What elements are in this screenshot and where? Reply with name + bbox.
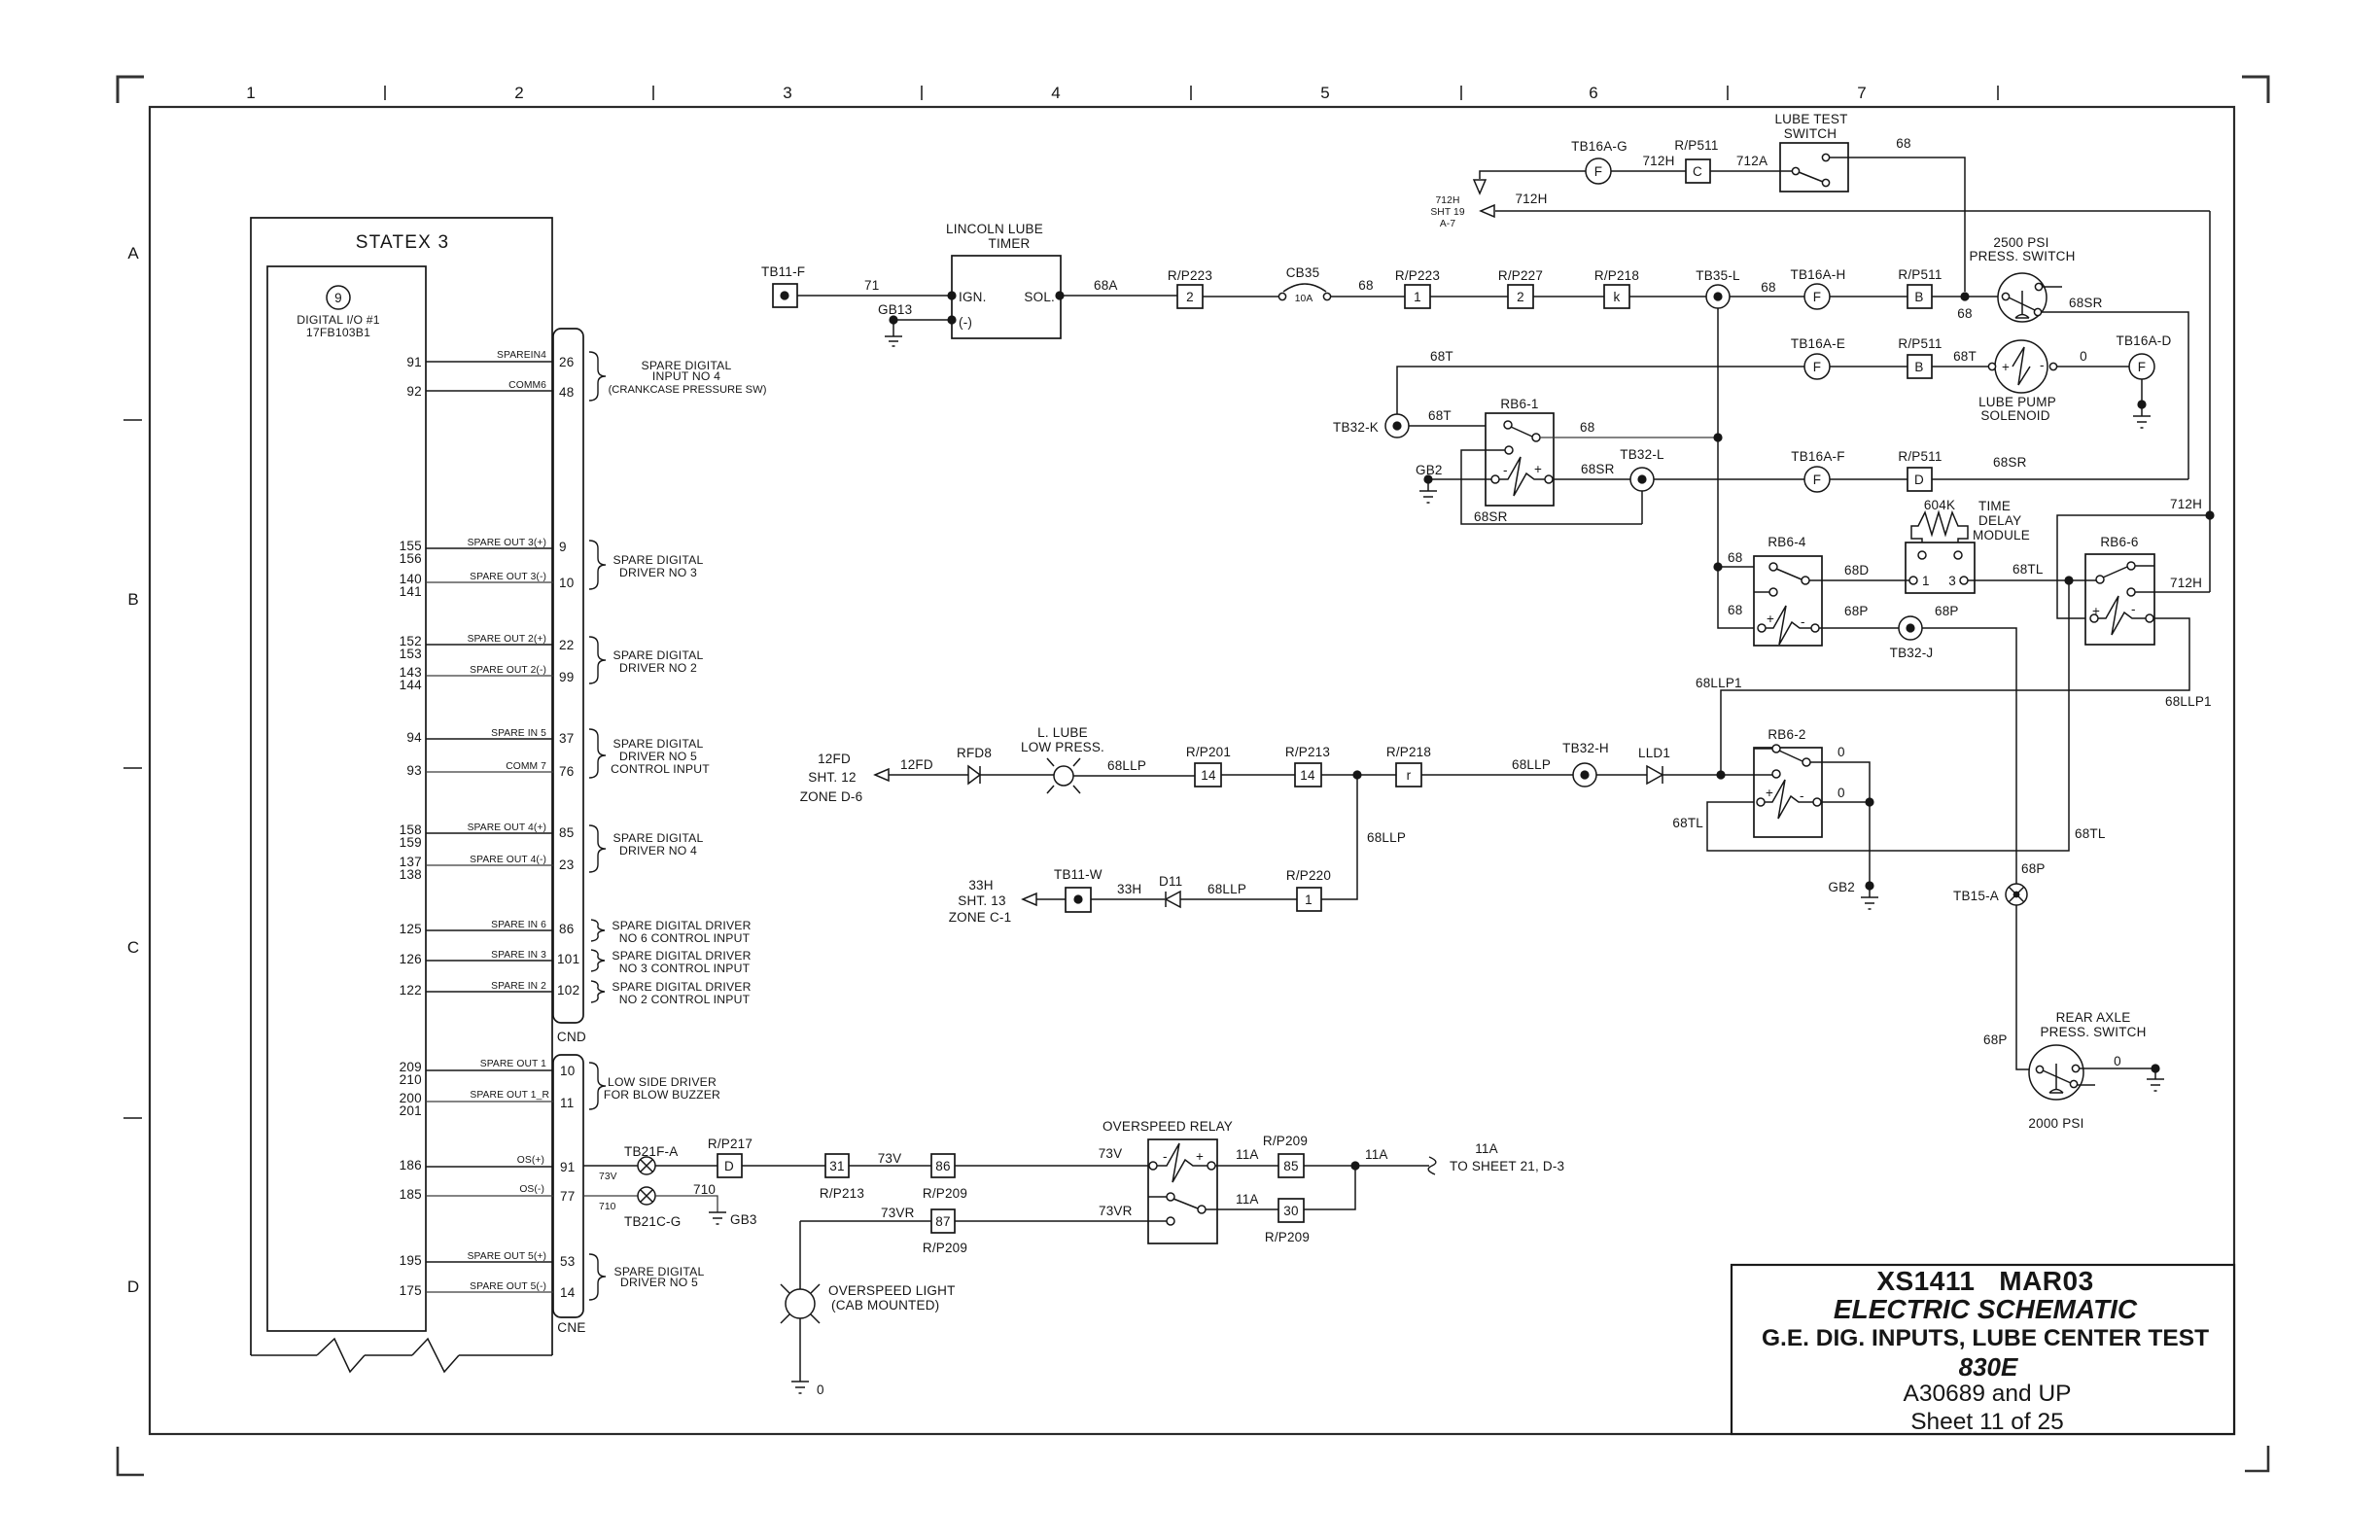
svg-text:GB13: GB13	[878, 302, 912, 317]
svg-text:SPARE IN 2: SPARE IN 2	[491, 981, 546, 992]
svg-text:SPARE IN 3: SPARE IN 3	[491, 950, 546, 961]
corner mark bottom-left	[118, 1447, 144, 1475]
svg-text:153: 153	[400, 647, 422, 661]
svg-text:10: 10	[559, 576, 575, 590]
wire 30 up to 11A junction	[1304, 1166, 1355, 1209]
wire OS(-) pin 185 to pin 77	[426, 1195, 553, 1197]
connector strip CND	[553, 329, 583, 1023]
svg-text:85: 85	[559, 825, 575, 840]
svg-text:33H: 33H	[968, 878, 993, 892]
svg-text:D11: D11	[1159, 874, 1182, 889]
svg-text:SPARE OUT 4(+): SPARE OUT 4(+)	[468, 822, 546, 833]
svg-text:2000 PSI: 2000 PSI	[2028, 1116, 2083, 1131]
break symbol 1	[317, 1339, 365, 1372]
svg-text:LUBE TEST: LUBE TEST	[1774, 112, 1847, 126]
svg-text:195: 195	[400, 1253, 422, 1268]
corner mark top-left	[118, 77, 144, 103]
wire 712A R/P511 C to lube test switch	[1710, 170, 1792, 172]
brace low side driver	[589, 1063, 606, 1109]
wire RB6-2 coil to GB2 junction 0	[1821, 801, 1870, 803]
drawing frame border	[150, 107, 2234, 1434]
svg-text:87: 87	[935, 1214, 950, 1229]
svg-text:TB16A-D: TB16A-D	[2117, 333, 2172, 348]
svg-text:SPARE DIGITAL DRIVER: SPARE DIGITAL DRIVER	[612, 980, 751, 994]
svg-text:R/P209: R/P209	[923, 1241, 967, 1255]
wire R/P201 to R/P213	[1221, 774, 1295, 776]
svg-text:Sheet 11 of 25: Sheet 11 of 25	[1910, 1409, 2064, 1435]
svg-text:SPARE IN 6: SPARE IN 6	[491, 920, 546, 930]
ground at TB16A-D	[2141, 379, 2143, 404]
svg-text:SPARE OUT 1_R: SPARE OUT 1_R	[470, 1090, 549, 1101]
svg-text:B: B	[1914, 360, 1923, 374]
wire 68LLP R/P218 to TB32-H	[1421, 774, 1573, 776]
svg-text:94: 94	[406, 730, 422, 745]
svg-text:A30689 and UP: A30689 and UP	[1904, 1381, 2072, 1407]
wire 73V 86 to overspeed relay	[955, 1165, 1149, 1167]
svg-text:SPARE OUT 1: SPARE OUT 1	[480, 1059, 546, 1069]
svg-text:GB2: GB2	[1828, 880, 1855, 894]
brace spare digital driver no 6 control input	[591, 920, 605, 941]
terminal TB11-F	[773, 284, 797, 307]
svg-text:OS(+): OS(+)	[517, 1155, 544, 1166]
svg-text:+: +	[2002, 360, 2010, 374]
wire OS(+) pin 186 to pin 91	[426, 1166, 553, 1168]
svg-text:R/P511: R/P511	[1898, 336, 1942, 351]
wire 68P RB6-4 coil to TB32-J	[1819, 627, 1899, 629]
row ticks	[123, 420, 142, 1118]
wire 712H right-edge riser	[2209, 211, 2211, 592]
svg-text:LOW SIDE DRIVER: LOW SIDE DRIVER	[608, 1075, 717, 1089]
svg-text:SPARE OUT 3(-): SPARE OUT 3(-)	[470, 572, 546, 582]
corner mark bottom-right	[2245, 1446, 2268, 1471]
off-sheet left arrow 33H	[1023, 893, 1036, 905]
svg-text:ELECTRIC SCHEMATIC: ELECTRIC SCHEMATIC	[1834, 1294, 2138, 1324]
svg-text:68SR: 68SR	[1993, 455, 2027, 470]
svg-text:138: 138	[400, 867, 422, 882]
svg-text:-: -	[2040, 358, 2045, 372]
svg-text:NO 3 CONTROL INPUT: NO 3 CONTROL INPUT	[619, 962, 751, 975]
svg-text:23: 23	[559, 857, 575, 872]
title block box	[1732, 1265, 2234, 1434]
wire SPARE OUT 1 pins 209/210 to pin 10	[426, 1069, 553, 1071]
svg-text:11A: 11A	[1236, 1192, 1259, 1207]
svg-text:712H: 712H	[1435, 195, 1459, 206]
wire 68TL riser to bottom run	[1707, 580, 2069, 851]
svg-text:710: 710	[693, 1182, 716, 1197]
svg-text:(-): (-)	[959, 315, 972, 330]
wire 33H TB11-W to D11	[1091, 898, 1165, 900]
svg-text:0: 0	[1837, 786, 1845, 800]
time delay pin 1	[1909, 577, 1917, 584]
svg-text:68LLP: 68LLP	[1512, 757, 1551, 772]
svg-text:68: 68	[1358, 278, 1373, 293]
svg-text:(CAB MOUNTED): (CAB MOUNTED)	[831, 1298, 939, 1312]
svg-text:76: 76	[559, 764, 575, 779]
svg-text:68SR: 68SR	[1474, 509, 1508, 524]
pressure switch 2000 PSI rear axle	[2029, 1045, 2083, 1100]
svg-text:TB16A-F: TB16A-F	[1791, 449, 1844, 464]
wire 68P TB32-J to riser	[1922, 628, 2031, 1069]
timer pin (-)	[947, 315, 956, 324]
svg-text:SPARE DIGITAL: SPARE DIGITAL	[613, 737, 704, 751]
svg-text:712A: 712A	[1736, 154, 1767, 168]
svg-text:NO 2 CONTROL INPUT: NO 2 CONTROL INPUT	[619, 993, 751, 1006]
wire 73VR light branch to 87	[800, 1221, 931, 1289]
brace spare digital driver no 4	[589, 825, 606, 872]
svg-text:SHT. 13: SHT. 13	[958, 893, 1005, 908]
svg-text:ZONE C-1: ZONE C-1	[949, 910, 1012, 925]
svg-text:TB11-W: TB11-W	[1054, 867, 1102, 882]
overspeed relay coil	[1149, 1162, 1157, 1170]
wire SPARE OUT 5(+) pin 195 to pin 53	[426, 1261, 553, 1263]
svg-text:(CRANKCASE PRESSURE SW): (CRANKCASE PRESSURE SW)	[609, 384, 767, 396]
wire RFD8 to low press lamp	[980, 774, 1054, 776]
RB6-2 coil	[1757, 798, 1765, 806]
svg-text:LOW PRESS.: LOW PRESS.	[1021, 740, 1104, 754]
svg-text:DIGITAL I/O #1: DIGITAL I/O #1	[297, 313, 379, 327]
svg-text:XS1411 MAR03: XS1411 MAR03	[1876, 1266, 2093, 1296]
circle 9 module id	[327, 286, 350, 309]
wire 68SR R/P511 D to riser	[1932, 478, 2188, 480]
svg-text:DRIVER NO 3: DRIVER NO 3	[619, 566, 697, 579]
svg-text:2: 2	[514, 84, 523, 102]
wire relay contact out 11A to R/P209 30	[1206, 1208, 1278, 1210]
off-sheet left arrow 12FD	[875, 769, 889, 781]
svg-text:SPARE OUT 2(+): SPARE OUT 2(+)	[468, 634, 546, 645]
svg-text:TB32-J: TB32-J	[1890, 646, 1934, 660]
ground 0 at overspeed light	[791, 1382, 809, 1393]
svg-text:68: 68	[1728, 603, 1742, 617]
terminal TB32-J	[1899, 616, 1922, 640]
wire 68SR RB6-1 coil to TB32-L	[1553, 478, 1630, 480]
svg-text:RFD8: RFD8	[957, 746, 992, 760]
wire TB32-H to LLD1	[1596, 774, 1647, 776]
brace spare digital driver no 3 control input	[591, 950, 605, 971]
wire R/P511 to pressure switch with junction	[1932, 296, 1998, 297]
svg-text:D: D	[1914, 472, 1924, 487]
svg-text:PRESS. SWITCH: PRESS. SWITCH	[1969, 249, 2075, 263]
svg-text:22: 22	[559, 638, 575, 652]
svg-text:68D: 68D	[1844, 563, 1869, 577]
svg-text:2500 PSI: 2500 PSI	[1993, 235, 2048, 250]
svg-text:0: 0	[2080, 349, 2087, 364]
svg-text:710: 710	[599, 1202, 616, 1212]
svg-text:99: 99	[559, 670, 575, 684]
svg-text:INPUT NO 4: INPUT NO 4	[652, 369, 720, 383]
svg-text:12FD: 12FD	[818, 752, 851, 766]
wire 712H RB6-6 NC to riser	[2135, 591, 2210, 593]
svg-text:TB21C-G: TB21C-G	[624, 1214, 681, 1229]
svg-text:92: 92	[406, 384, 422, 399]
svg-text:SPARE IN 5: SPARE IN 5	[491, 728, 546, 739]
svg-text:68SR: 68SR	[1581, 462, 1615, 476]
svg-text:B: B	[127, 590, 138, 609]
wire 68T TB32-K to RB6-1	[1409, 425, 1504, 427]
svg-text:NO 6 CONTROL INPUT: NO 6 CONTROL INPUT	[619, 931, 751, 945]
ground GB13	[889, 315, 897, 324]
svg-text:73V: 73V	[878, 1151, 902, 1166]
time delay module box	[1906, 542, 1975, 593]
wire 68 into RB6-4 contact	[1718, 566, 1769, 568]
wire TB16A-H to R/P511	[1830, 296, 1907, 297]
svg-text:F: F	[1813, 472, 1821, 487]
svg-text:9: 9	[334, 291, 342, 305]
svg-text:77: 77	[560, 1189, 576, 1204]
svg-text:85: 85	[1283, 1159, 1298, 1173]
svg-text:-: -	[1801, 614, 1805, 629]
svg-text:1: 1	[1922, 574, 1930, 588]
wire 710 TB21C-G to GB3	[655, 1196, 717, 1212]
svg-text:68: 68	[1728, 550, 1742, 565]
wire 11A 85 to off-sheet with junction	[1304, 1165, 1429, 1167]
wire TB16A-G to off-sheet arrow	[1480, 171, 1586, 179]
svg-text:68LLP: 68LLP	[1107, 758, 1146, 773]
STATEX 3 outer box bottom edge with break symbols	[251, 1354, 552, 1356]
svg-text:COMM 7: COMM 7	[506, 761, 546, 772]
svg-text:TIMER: TIMER	[989, 236, 1031, 251]
svg-text:14: 14	[1201, 768, 1216, 783]
break symbol to sheet 21	[1428, 1157, 1436, 1174]
wire 73V pin 91 to TB21F-A	[583, 1165, 638, 1167]
svg-text:10A: 10A	[1295, 294, 1313, 304]
svg-text:68: 68	[1896, 136, 1910, 151]
break symbol 2	[412, 1339, 459, 1372]
svg-text:68LLP1: 68LLP1	[1696, 676, 1742, 690]
svg-text:CB35: CB35	[1286, 265, 1320, 280]
svg-text:R/P227: R/P227	[1498, 268, 1543, 283]
RB6-6 coil	[2090, 614, 2098, 622]
svg-text:SPARE OUT 4(-): SPARE OUT 4(-)	[470, 855, 546, 865]
svg-text:-: -	[1800, 788, 1804, 803]
svg-text:A: A	[127, 244, 139, 262]
brace spare digital driver no 5 control input	[589, 729, 606, 778]
svg-text:12FD: 12FD	[900, 757, 933, 772]
svg-text:SOLENOID: SOLENOID	[1980, 408, 2049, 423]
wire COMM6 pin 92 to pin 48	[426, 390, 553, 392]
svg-text:TO SHEET 21, D-3: TO SHEET 21, D-3	[1450, 1159, 1564, 1173]
wire 12FD arrow to RFD8	[889, 774, 968, 776]
wire 712H TB16A-G to R/P511 C	[1611, 170, 1686, 172]
svg-text:R/P511: R/P511	[1898, 449, 1942, 464]
svg-text:68T: 68T	[1430, 349, 1453, 364]
RB6-1 coil	[1491, 475, 1499, 483]
svg-text:TB32-L: TB32-L	[1620, 447, 1664, 462]
wire 68A timer SOL to R/P223	[1060, 295, 1177, 297]
lamp terminal TB21C-G	[638, 1187, 655, 1205]
brace spare digital driver no 5	[589, 1254, 606, 1300]
svg-text:COMM6: COMM6	[508, 380, 546, 391]
svg-text:SPARE OUT 2(-): SPARE OUT 2(-)	[470, 665, 546, 676]
svg-text:LLD1: LLD1	[1638, 746, 1670, 760]
svg-text:26: 26	[559, 355, 575, 369]
wire 68T R/P511 to lube pump solenoid	[1932, 366, 1988, 367]
svg-text:68TL: 68TL	[2012, 562, 2044, 577]
svg-text:TIME: TIME	[1978, 499, 2011, 513]
wire 68LLP lamp to R/P201	[1073, 775, 1195, 777]
svg-text:DRIVER NO 4: DRIVER NO 4	[619, 844, 697, 857]
corner mark top-right	[2242, 77, 2268, 103]
svg-text:1: 1	[1414, 290, 1421, 304]
wire 73VR 87 to relay contact	[955, 1220, 1167, 1222]
svg-text:TB32-H: TB32-H	[1562, 741, 1609, 755]
svg-text:17FB103B1: 17FB103B1	[306, 326, 370, 339]
svg-text:SPARE OUT 3(+): SPARE OUT 3(+)	[468, 538, 546, 548]
wire TB21F-A to R/P217 D	[655, 1165, 717, 1167]
wire 68 lube test switch to junction	[1830, 157, 1965, 292]
svg-text:6: 6	[1589, 84, 1597, 102]
svg-text:CONTROL INPUT: CONTROL INPUT	[611, 762, 710, 776]
svg-text:R/P218: R/P218	[1594, 268, 1639, 283]
wire arrow to TB11-W	[1036, 898, 1066, 900]
svg-text:53: 53	[560, 1254, 576, 1269]
wire 0 solenoid to TB16A-D	[2057, 366, 2129, 367]
Lincoln lube timer box	[952, 256, 1061, 338]
svg-text:R/P223: R/P223	[1168, 268, 1212, 283]
svg-text:LINCOLN LUBE: LINCOLN LUBE	[946, 222, 1043, 236]
svg-text:LUBE PUMP: LUBE PUMP	[1978, 395, 2056, 409]
wire SPARE OUT 1_R pins 200/201 to pin 11	[426, 1101, 553, 1102]
svg-text:68LLP: 68LLP	[1207, 882, 1246, 896]
column ticks	[385, 86, 1998, 100]
svg-text:68T: 68T	[1428, 408, 1452, 423]
wire SPARE OUT 2(-) pins 143/144 to pin 99	[426, 675, 553, 677]
svg-text:R/P218: R/P218	[1386, 745, 1431, 759]
overspeed light lamp	[786, 1289, 815, 1318]
wire 710 pin 77 to TB21C-G	[583, 1195, 638, 1197]
wire TB16A-F to R/P511 D	[1830, 478, 1907, 480]
svg-text:TB15-A: TB15-A	[1953, 889, 1999, 903]
wire 68SR pressure switch output	[2042, 312, 2188, 479]
wire 73V R/P213 to R/P209 86	[849, 1165, 931, 1167]
svg-text:R/P511: R/P511	[1674, 138, 1718, 153]
svg-text:68: 68	[1761, 280, 1775, 295]
svg-text:R/P209: R/P209	[923, 1186, 967, 1201]
svg-text:9: 9	[559, 540, 567, 554]
svg-text:3: 3	[783, 84, 791, 102]
svg-text:SPARE DIGITAL: SPARE DIGITAL	[613, 831, 704, 845]
svg-text:11A: 11A	[1475, 1141, 1498, 1156]
svg-text:DELAY: DELAY	[1978, 513, 2021, 528]
ground at rear axle switch	[2151, 1064, 2159, 1072]
svg-text:712H: 712H	[2170, 576, 2202, 590]
connector strip CNE	[553, 1055, 583, 1317]
svg-text:GB3: GB3	[730, 1212, 757, 1227]
svg-text:DRIVER NO 5: DRIVER NO 5	[619, 750, 697, 763]
svg-text:SPAREIN4: SPAREIN4	[497, 350, 546, 361]
svg-text:+: +	[1767, 612, 1774, 626]
svg-text:MODULE: MODULE	[1973, 528, 2030, 542]
svg-text:+: +	[2092, 604, 2100, 618]
svg-text:+: +	[1196, 1149, 1204, 1164]
wire R/P218 to TB35-L	[1629, 296, 1706, 297]
svg-text:SWITCH: SWITCH	[1784, 126, 1837, 141]
off-sheet left arrow 712H	[1481, 205, 1494, 217]
svg-text:-: -	[1163, 1149, 1168, 1164]
RB6-4 coil	[1758, 624, 1766, 632]
svg-text:37: 37	[559, 731, 575, 746]
svg-text:SPARE OUT 5(+): SPARE OUT 5(+)	[468, 1251, 546, 1262]
svg-text:+: +	[1766, 786, 1773, 800]
svg-text:F: F	[1594, 164, 1602, 179]
svg-text:B: B	[1914, 290, 1923, 304]
wire 71 TB11-F to timer IGN	[797, 295, 952, 297]
svg-text:R/P217: R/P217	[708, 1137, 752, 1151]
connector R/P209 pin 87	[931, 1209, 955, 1233]
wire 68LLP1 RB6-6 coil to RB6-2	[1721, 618, 2189, 775]
svg-text:IGN.: IGN.	[959, 290, 987, 304]
svg-text:RB6-4: RB6-4	[1767, 535, 1806, 549]
brace spare digital driver no 2	[589, 637, 606, 683]
svg-text:0: 0	[2114, 1054, 2121, 1068]
svg-text:144: 144	[400, 678, 423, 692]
overspeed relay contacts	[1167, 1193, 1174, 1201]
svg-text:11A: 11A	[1365, 1147, 1388, 1162]
wire SPAREIN4 pin 91 to pin 26	[426, 361, 553, 363]
wire 68TL time delay pin 3 to RB6-6	[1968, 579, 2096, 581]
svg-text:201: 201	[400, 1103, 422, 1118]
wire SPARE IN 3 pin 126 to pin 101	[426, 960, 553, 962]
svg-text:712H: 712H	[2170, 497, 2202, 511]
svg-text:TB21F-A: TB21F-A	[624, 1144, 678, 1159]
brace spare digital driver no 2 control input	[591, 981, 605, 1002]
svg-text:156: 156	[400, 551, 422, 566]
wire 712H return from right edge	[1495, 210, 2210, 212]
svg-text:830E: 830E	[1959, 1352, 2018, 1382]
svg-text:1: 1	[1305, 892, 1312, 907]
wire R/P223 to CB35	[1203, 296, 1278, 297]
svg-text:11A: 11A	[1236, 1147, 1259, 1162]
svg-text:73V: 73V	[1099, 1146, 1123, 1161]
svg-text:2: 2	[1517, 290, 1524, 304]
svg-text:k: k	[1614, 290, 1621, 304]
svg-text:91: 91	[560, 1160, 576, 1174]
wire 68 TB35-L to TB16A-H	[1730, 296, 1804, 297]
wire TB35-L riser to RB6-4	[1718, 308, 1760, 628]
wire SPARE OUT 4(+) pins 158/159 to pin 85	[426, 832, 553, 834]
wire SPARE IN 6 pin 125 to pin 86	[426, 929, 553, 931]
svg-text:R/P220: R/P220	[1286, 868, 1331, 883]
wire GB2 to RB6-1 coil	[1428, 478, 1491, 480]
svg-text:71: 71	[864, 278, 879, 293]
wire SPARE OUT 3(+) pins 155/156 to pin 9	[426, 547, 553, 549]
svg-text:TB16A-H: TB16A-H	[1791, 267, 1846, 282]
svg-text:68SR: 68SR	[2069, 296, 2103, 310]
wire GB13 to timer (-)	[893, 319, 952, 321]
svg-text:68P: 68P	[1935, 604, 1959, 618]
svg-text:159: 159	[400, 835, 422, 850]
svg-text:2: 2	[1186, 290, 1194, 304]
svg-text:10: 10	[560, 1064, 576, 1078]
svg-text:185: 185	[400, 1187, 422, 1202]
svg-text:86: 86	[935, 1159, 950, 1173]
svg-text:SPARE OUT 5(-): SPARE OUT 5(-)	[470, 1281, 546, 1292]
svg-text:R/P201: R/P201	[1186, 745, 1231, 759]
svg-text:G.E. DIG. INPUTS, LUBE CENTER: G.E. DIG. INPUTS, LUBE CENTER TEST	[1762, 1325, 2209, 1351]
svg-text:125: 125	[400, 922, 422, 936]
wire 712H to RB6-6 coil	[2057, 515, 2210, 618]
svg-text:R/P223: R/P223	[1395, 268, 1440, 283]
svg-text:OVERSPEED LIGHT: OVERSPEED LIGHT	[828, 1283, 956, 1298]
svg-text:0: 0	[1837, 745, 1845, 759]
svg-text:R/P213: R/P213	[820, 1186, 864, 1201]
svg-text:DRIVER NO 5: DRIVER NO 5	[620, 1276, 698, 1289]
svg-text:SPARE DIGITAL DRIVER: SPARE DIGITAL DRIVER	[612, 949, 751, 962]
svg-text:86: 86	[559, 922, 575, 936]
svg-text:5: 5	[1320, 84, 1329, 102]
wire SPARE OUT 4(-) pins 137/138 to pin 23	[426, 864, 553, 866]
ground GB3	[709, 1212, 726, 1224]
STATEX 3 outer box U9	[251, 218, 552, 1355]
